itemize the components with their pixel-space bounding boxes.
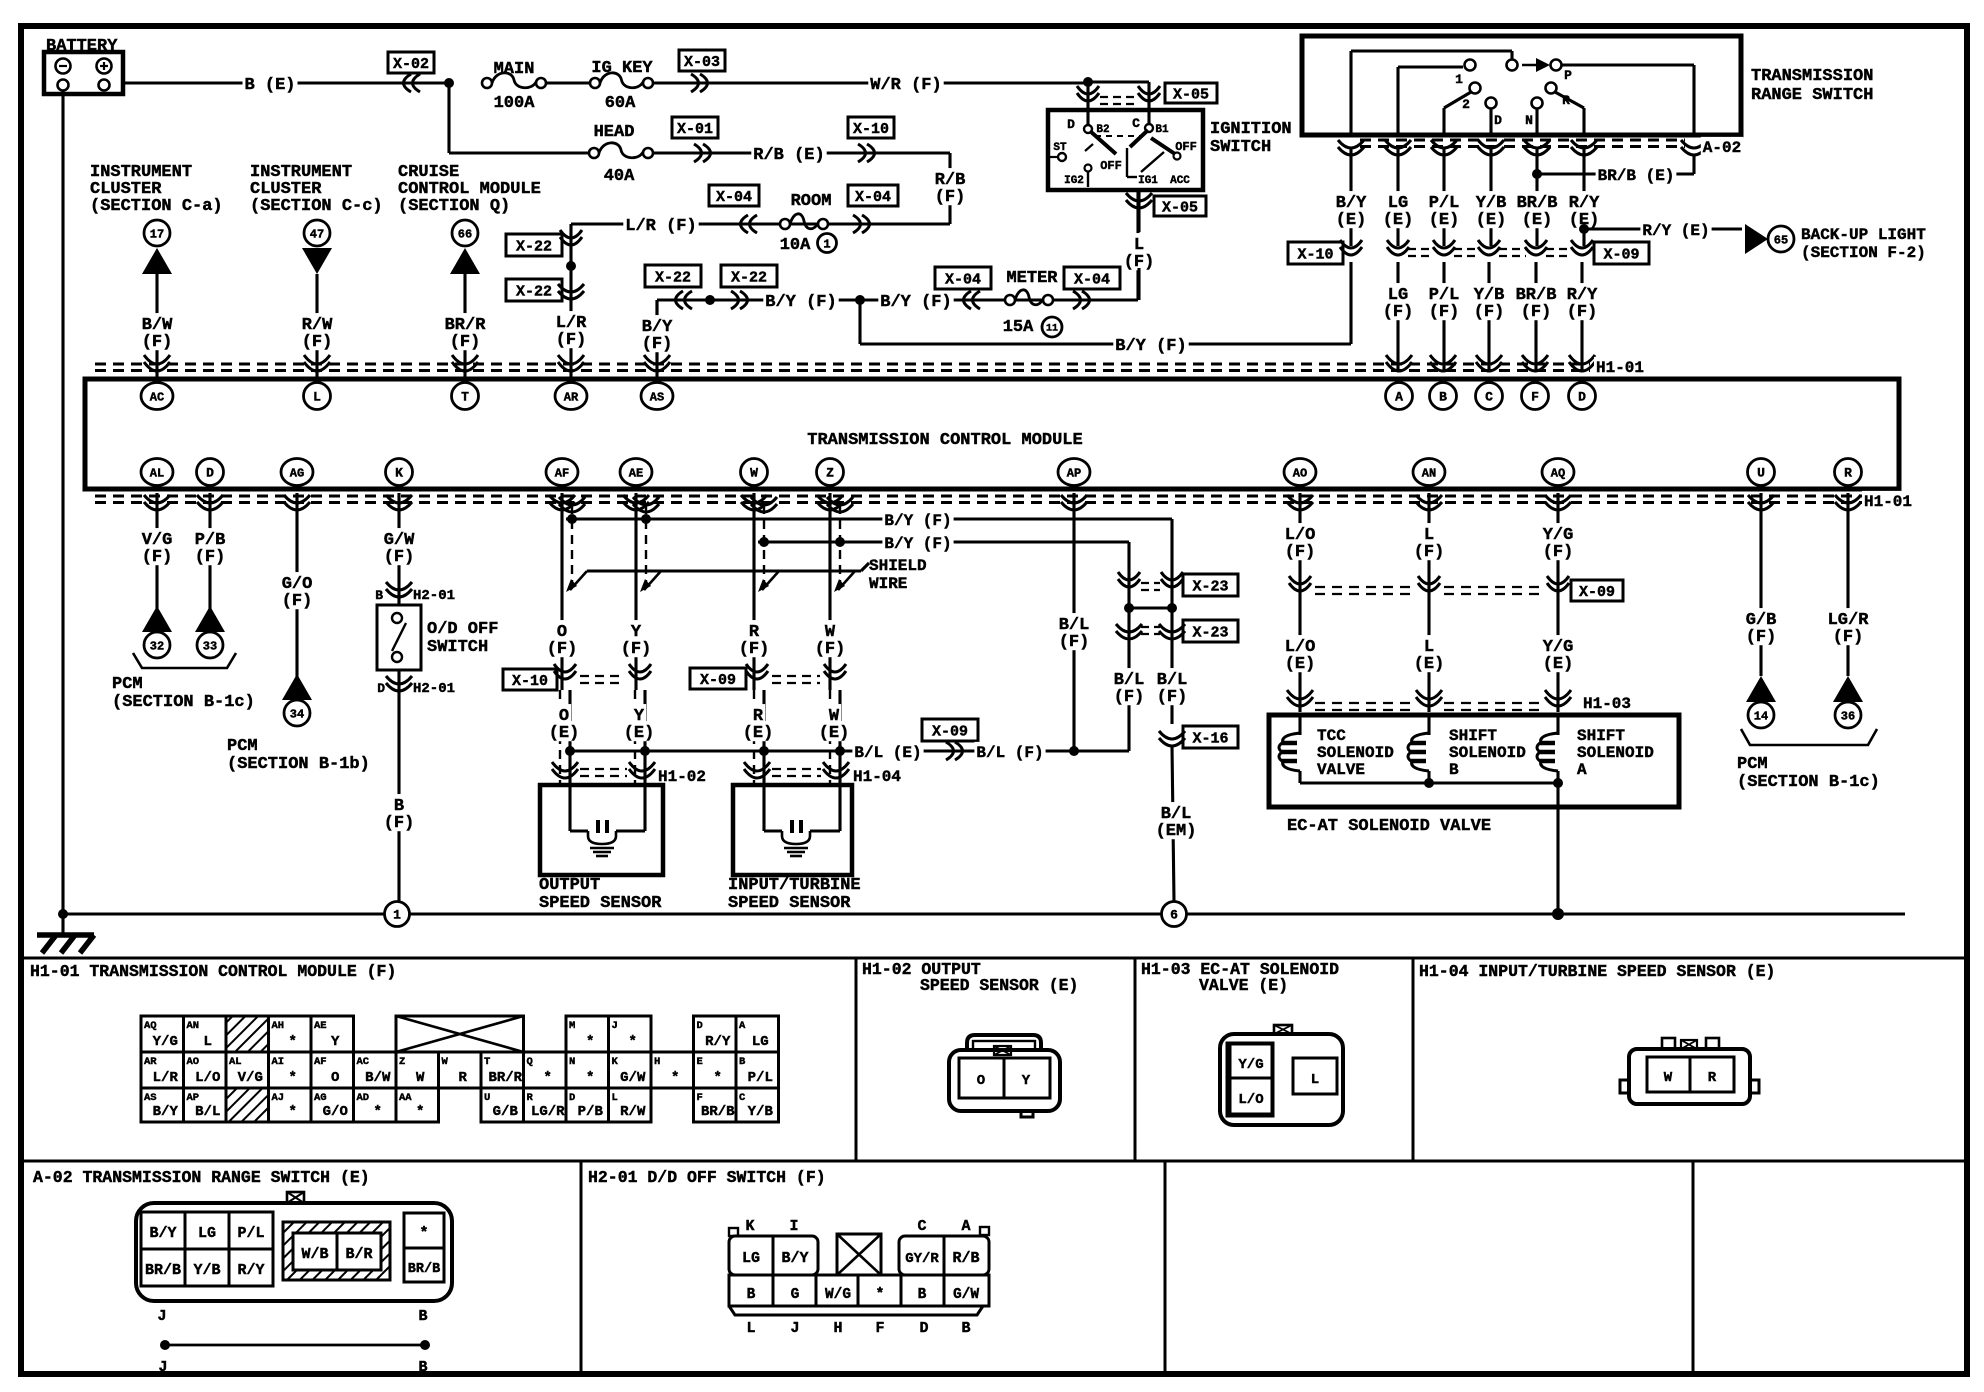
svg-text:(F): (F) <box>1567 303 1598 322</box>
svg-text:(F): (F) <box>1157 688 1188 707</box>
svg-text:BACK-UP LIGHT: BACK-UP LIGHT <box>1801 226 1926 244</box>
connector X-05 box top <box>1165 83 1217 103</box>
shield chevron R <box>751 497 777 512</box>
svg-text:40A: 40A <box>604 167 635 186</box>
svg-text:L: L <box>204 1034 212 1050</box>
svg-text:J: J <box>158 1359 167 1376</box>
label Y(F) <box>629 620 643 640</box>
connector H1-04 chevrons <box>744 762 770 778</box>
svg-text:SWITCH: SWITCH <box>427 638 488 657</box>
svg-text:SPEED SENSOR (E): SPEED SENSOR (E) <box>920 976 1078 995</box>
svg-text:VALVE (E): VALVE (E) <box>1199 976 1288 995</box>
svg-text:A: A <box>961 1218 970 1235</box>
table divider empty cells <box>1692 1161 1695 1374</box>
TCM top bus chevron AC <box>144 355 170 371</box>
wire L solenoid column F <box>1427 493 1430 597</box>
svg-text:(EM): (EM) <box>1156 822 1197 841</box>
wire BR/B(F) column <box>1534 262 1537 372</box>
svg-text:(E): (E) <box>743 724 774 743</box>
label R(F) <box>747 620 761 640</box>
output sensor internals <box>568 785 571 831</box>
svg-text:AA: AA <box>399 1092 412 1104</box>
TCM pin B <box>1430 383 1457 410</box>
svg-text:B/Y (F): B/Y (F) <box>1115 337 1186 356</box>
shield dashed W(F) <box>839 505 841 586</box>
connector X-01 chevron <box>694 144 711 162</box>
junction AP B/L <box>1069 746 1079 756</box>
TCM pin AE <box>620 459 652 486</box>
svg-text:(F): (F) <box>556 331 587 350</box>
junction X-22 <box>566 261 576 271</box>
svg-text:AG: AG <box>290 467 304 481</box>
svg-text:AC: AC <box>150 391 164 405</box>
svg-text:R/W: R/W <box>620 1104 646 1120</box>
wire BR/B(E) link <box>1536 141 1538 174</box>
svg-text:B/Y: B/Y <box>153 1104 179 1120</box>
label B/Y(F) AS column <box>640 315 675 335</box>
node 34 <box>284 700 310 726</box>
svg-text:VALVE: VALVE <box>1317 761 1365 779</box>
O/D switch contacts <box>392 613 402 623</box>
wire Y/G solenoid column F <box>1556 493 1559 597</box>
wire B/Y branch down to AS <box>655 300 658 377</box>
TCM pin AG <box>281 459 313 486</box>
wire R(F) sensor column <box>752 493 755 690</box>
connector X-22 box upper <box>506 234 562 256</box>
node 33 <box>197 632 223 658</box>
svg-text:(F): (F) <box>642 335 673 354</box>
back-up light arrow <box>1745 224 1768 254</box>
svg-text:R: R <box>527 1092 534 1104</box>
TCM top bus chevron L <box>304 355 330 371</box>
label G/W(F) <box>382 528 417 548</box>
svg-text:(E): (E) <box>1429 211 1460 230</box>
TCM top bus chevron B <box>1430 355 1456 371</box>
wire W(E) column <box>838 690 841 785</box>
fuse ROOM 10A <box>780 219 790 229</box>
node 47 <box>304 220 330 246</box>
label B/L(F) col a <box>1112 668 1147 688</box>
svg-text:U: U <box>1757 466 1765 481</box>
svg-text:U: U <box>484 1092 490 1104</box>
input sensor internals <box>762 785 765 831</box>
range switch wire R to R/Y <box>1555 92 1584 108</box>
TCM pin U <box>1748 459 1775 486</box>
range switch contact P <box>1551 60 1562 71</box>
svg-text:L: L <box>746 1320 755 1337</box>
label B/Y(F) meter row a <box>763 290 838 310</box>
svg-text:(E): (E) <box>1336 211 1367 230</box>
shield hook R <box>762 571 779 590</box>
wire L/O solenoid column F <box>1298 493 1301 597</box>
label L(E) <box>1422 635 1436 655</box>
svg-text:AQ: AQ <box>144 1020 157 1032</box>
wire W(F) sensor column <box>828 493 831 690</box>
svg-text:AP: AP <box>1067 467 1081 481</box>
svg-text:BR/B: BR/B <box>408 1262 440 1277</box>
label W/R(F) <box>868 73 943 93</box>
svg-text:Y: Y <box>331 1034 340 1050</box>
svg-text:C: C <box>739 1092 746 1104</box>
svg-text:R: R <box>1708 1070 1717 1086</box>
svg-text:X-09: X-09 <box>1579 584 1615 601</box>
svg-text:B/L: B/L <box>195 1104 220 1120</box>
output speed sensor box <box>540 785 663 875</box>
svg-text:D: D <box>1578 390 1586 405</box>
svg-text:AL: AL <box>150 467 164 481</box>
junction X-23 a <box>1124 603 1134 613</box>
svg-text:33: 33 <box>203 639 217 653</box>
svg-text:SPEED SENSOR: SPEED SENSOR <box>539 894 662 913</box>
wire G/O column <box>295 493 298 700</box>
svg-text:BR/B (E): BR/B (E) <box>1598 167 1675 185</box>
fuse IG KEY 60A <box>590 78 600 88</box>
label B/L(E) <box>852 742 923 761</box>
connector X-22 chevron d <box>731 291 748 309</box>
svg-text:X-01: X-01 <box>677 121 713 138</box>
svg-text:Z: Z <box>399 1056 405 1068</box>
shield hook Y <box>644 571 661 590</box>
svg-text:*: * <box>629 1034 637 1050</box>
O/D switch chevron D <box>386 676 412 691</box>
svg-text:OFF: OFF <box>1100 159 1122 173</box>
svg-text:WIRE: WIRE <box>869 575 907 593</box>
connector X-10 chevron mid <box>1340 240 1362 255</box>
svg-text:X-23: X-23 <box>1192 624 1228 641</box>
svg-text:(F): (F) <box>621 640 652 659</box>
shield chevron W <box>827 497 853 512</box>
connector X-04 box d <box>1064 267 1120 289</box>
range switch contact N <box>1532 98 1543 109</box>
arrow up to 66 <box>450 248 480 274</box>
TCM pin AN <box>1413 459 1445 486</box>
svg-text:W: W <box>750 466 758 481</box>
TCM pin AP <box>1058 459 1090 486</box>
svg-text:TCC: TCC <box>1317 727 1346 745</box>
svg-text:AE: AE <box>629 467 643 481</box>
svg-text:AN: AN <box>1422 467 1436 481</box>
wire Y(E) column <box>643 690 646 785</box>
svg-text:T: T <box>484 1056 490 1068</box>
wire B(F) to ground node <box>397 670 400 901</box>
svg-text:*: * <box>876 1287 885 1303</box>
TCM pin AF <box>546 459 578 486</box>
svg-text:IG2: IG2 <box>1064 175 1084 187</box>
svg-text:Y/G: Y/G <box>153 1034 178 1050</box>
wire B/Y(E) column <box>1349 148 1352 246</box>
svg-text:TRANSMISSION CONTROL MODULE: TRANSMISSION CONTROL MODULE <box>807 431 1082 450</box>
svg-text:O: O <box>331 1070 339 1086</box>
connector X-10 chevron top <box>858 144 875 162</box>
svg-text:J: J <box>612 1020 618 1032</box>
svg-text:(F): (F) <box>282 592 313 611</box>
svg-text:(F): (F) <box>1383 303 1414 322</box>
svg-text:36: 36 <box>1841 709 1855 723</box>
svg-text:11: 11 <box>1046 324 1058 335</box>
label B/Y(F) meter row b <box>878 290 953 310</box>
shield dashed Y(F) <box>645 505 647 586</box>
label R/B(F) <box>933 168 968 188</box>
TCM pin L <box>304 383 331 410</box>
wire Y/G solenoid column E <box>1556 597 1559 712</box>
svg-text:B: B <box>747 1287 756 1303</box>
TCM pin D <box>197 459 224 486</box>
svg-text:H1-01: H1-01 <box>1596 359 1644 377</box>
table border top <box>21 957 1967 960</box>
label BR/R(F) <box>443 313 488 333</box>
svg-text:(E): (E) <box>1522 211 1553 230</box>
label L/R(F) column <box>554 311 589 331</box>
svg-text:B/W: B/W <box>365 1070 391 1086</box>
O/D switch chevron B <box>386 582 412 597</box>
svg-text:AC: AC <box>357 1056 370 1068</box>
svg-text:D: D <box>1067 117 1075 132</box>
svg-text:H1-04: H1-04 <box>853 768 901 786</box>
table divider h2-01/empty <box>1164 1161 1167 1374</box>
shield hook W <box>838 571 855 590</box>
svg-text:D: D <box>569 1092 575 1104</box>
svg-text:SHIFT: SHIFT <box>1577 727 1625 745</box>
svg-text:X-23: X-23 <box>1192 578 1228 595</box>
svg-text:P/L: P/L <box>748 1070 773 1086</box>
svg-text:L/O: L/O <box>1238 1092 1263 1108</box>
connector X-23 box lower <box>1183 620 1238 642</box>
svg-text:AO: AO <box>187 1056 200 1068</box>
arrow up PCM 34 <box>282 674 312 700</box>
svg-text:(F): (F) <box>547 640 578 659</box>
label B/Y(F) drain2 <box>882 533 953 552</box>
wire IG KEY to X-03 <box>653 81 1088 84</box>
TCM pin AS <box>641 383 673 410</box>
svg-text:R/Y: R/Y <box>237 1262 264 1279</box>
TCM top bus chevron AR <box>558 355 584 371</box>
svg-text:L/R (F): L/R (F) <box>625 217 696 236</box>
arrow up PCM 36 <box>1833 676 1863 702</box>
range switch arrow to P <box>1522 64 1545 67</box>
range switch pivot contact <box>1507 60 1518 71</box>
TCM pin Z <box>817 459 844 486</box>
svg-text:AP: AP <box>187 1092 200 1104</box>
svg-text:C: C <box>1132 116 1140 131</box>
connector X-22 box lower <box>506 279 562 301</box>
svg-text:A: A <box>739 1020 746 1032</box>
connector X-09 box mid <box>1594 242 1649 264</box>
svg-text:X-10: X-10 <box>853 121 889 138</box>
svg-text:ROOM: ROOM <box>791 192 832 211</box>
svg-text:X-22: X-22 <box>731 269 767 286</box>
svg-text:SPEED SENSOR: SPEED SENSOR <box>728 894 851 913</box>
TCM bottom bus chevron AE <box>623 495 649 510</box>
svg-text:(F): (F) <box>142 333 173 352</box>
TCM pin AC <box>141 383 173 410</box>
label R/Y(E) <box>1567 191 1602 211</box>
svg-text:H2-01 D/D OFF SWITCH (F): H2-01 D/D OFF SWITCH (F) <box>588 1168 826 1187</box>
label B/W(F) <box>140 313 175 333</box>
svg-text:A-02: A-02 <box>1703 139 1741 157</box>
svg-text:17: 17 <box>150 227 164 241</box>
label B/L(F) col b <box>1155 668 1190 688</box>
svg-text:B1: B1 <box>1155 124 1169 136</box>
label A-02 <box>1701 137 1743 156</box>
battery minus post <box>58 80 69 91</box>
svg-text:W: W <box>416 1070 425 1086</box>
connector H1-03 drawing <box>1220 1034 1343 1125</box>
label B/L(F) row <box>974 742 1045 761</box>
svg-text:1: 1 <box>1455 72 1463 87</box>
svg-text:*: * <box>416 1104 424 1120</box>
svg-text:C: C <box>917 1218 926 1235</box>
svg-text:1: 1 <box>823 237 830 251</box>
svg-text:B: B <box>739 1056 746 1068</box>
connector X-01 box <box>672 117 718 138</box>
svg-text:G/W: G/W <box>953 1287 979 1303</box>
TCC solenoid coil <box>1298 715 1301 735</box>
svg-text:V/G: V/G <box>238 1070 263 1086</box>
TCM bottom bus chevron AP <box>1061 495 1087 510</box>
TCM bottom bus chevron R <box>1835 495 1861 510</box>
TCM pin C <box>1476 383 1503 410</box>
svg-text:2: 2 <box>1462 97 1470 112</box>
arrow up to 17 <box>142 248 172 274</box>
label P/B(F) <box>193 528 228 548</box>
svg-text:TRANSMISSION: TRANSMISSION <box>1751 67 1873 86</box>
connector H2-01 drawing <box>729 1236 818 1275</box>
O/D off switch box <box>377 605 421 670</box>
range switch wire D <box>1489 109 1492 135</box>
svg-text:L/R: L/R <box>153 1070 179 1086</box>
svg-text:R: R <box>459 1070 468 1086</box>
shift solenoid A coil <box>1556 715 1559 735</box>
arrow up PCM 32 <box>142 606 172 632</box>
TCM pin AL <box>141 459 173 486</box>
junction battery rail <box>58 909 68 919</box>
svg-text:G: G <box>791 1287 800 1303</box>
svg-text:W/G: W/G <box>825 1287 851 1303</box>
svg-text:AH: AH <box>272 1020 285 1032</box>
TCM pin A <box>1386 383 1413 410</box>
svg-text:B: B <box>1439 390 1447 405</box>
connector X-16 box <box>1183 726 1238 748</box>
shield dashed R(F) <box>763 505 765 586</box>
arrow down from 47 <box>302 248 332 274</box>
svg-text:D: D <box>377 681 385 696</box>
svg-text:LG: LG <box>198 1225 216 1242</box>
junction drain2 a <box>759 537 769 547</box>
range switch wire B/Y inner <box>1349 51 1352 135</box>
connector X-04 chevron a <box>741 215 758 233</box>
label Y/G(F) <box>1541 523 1576 543</box>
svg-text:GY/R: GY/R <box>905 1251 939 1267</box>
svg-text:P/B: P/B <box>578 1104 604 1120</box>
svg-text:Y/B: Y/B <box>193 1262 220 1279</box>
svg-text:OUTPUT: OUTPUT <box>539 876 600 895</box>
svg-text:B/L (F): B/L (F) <box>976 744 1043 762</box>
svg-text:SOLENOID: SOLENOID <box>1317 744 1394 762</box>
wire R/Y(E) to back-up light <box>1584 227 1742 230</box>
label H1-03 <box>1581 693 1633 712</box>
svg-text:60A: 60A <box>605 94 636 113</box>
svg-text:BR/B: BR/B <box>145 1262 181 1279</box>
svg-text:*: * <box>289 1070 297 1086</box>
svg-text:H1-04 INPUT/TURBINE SPEED SENS: H1-04 INPUT/TURBINE SPEED SENSOR (E) <box>1419 962 1775 981</box>
connector X-22 chevron c <box>676 291 693 309</box>
svg-text:HEAD: HEAD <box>594 123 635 142</box>
svg-text:B (E): B (E) <box>244 76 295 95</box>
svg-text:C: C <box>1485 390 1493 405</box>
label LG(F) <box>1386 283 1410 303</box>
label B/Y(E) <box>1334 191 1369 211</box>
wire P/L(F) column <box>1442 262 1445 372</box>
bottom ground rail wire <box>63 912 1905 915</box>
connector X-23 chevrons upper <box>1118 572 1140 587</box>
junction meter row b <box>855 295 865 305</box>
range switch wire P out <box>1561 63 1694 66</box>
svg-text:B: B <box>1449 761 1459 779</box>
node 36 <box>1835 702 1861 728</box>
shield dashed Y(E) <box>634 690 636 785</box>
svg-text:A: A <box>1577 761 1587 779</box>
range switch contact R <box>1546 83 1557 94</box>
svg-text:(E): (E) <box>624 724 655 743</box>
svg-text:IG KEY: IG KEY <box>591 59 653 78</box>
TCM top bus chevron D <box>1569 355 1595 371</box>
wire V/G column <box>155 493 158 633</box>
connector H1-04 drawing <box>1629 1049 1750 1104</box>
transmission range switch box <box>1302 36 1741 135</box>
svg-text:X-02: X-02 <box>393 56 429 73</box>
PCM bracket right <box>1741 729 1877 745</box>
label G/O(F) <box>280 572 315 592</box>
solenoid common wire <box>1300 781 1558 784</box>
label H1-01 top <box>1594 357 1646 376</box>
connector H1-03 chevrons <box>1287 690 1313 706</box>
svg-text:H: H <box>833 1320 842 1337</box>
label L/O(F) <box>1283 523 1318 543</box>
svg-text:SOLENOID: SOLENOID <box>1449 744 1526 762</box>
svg-text:W/R (F): W/R (F) <box>870 76 941 95</box>
svg-text:BR/B: BR/B <box>701 1104 735 1120</box>
PCM bracket left <box>133 653 236 668</box>
svg-text:(F): (F) <box>384 814 415 833</box>
connector X-09 box solenoid <box>1571 580 1623 601</box>
junction solenoid common <box>1424 778 1434 788</box>
TCM bottom bus chevron AQ <box>1545 495 1571 510</box>
svg-text:(E): (E) <box>1285 655 1316 674</box>
svg-text:L/O: L/O <box>195 1070 220 1086</box>
junction drain2 b <box>835 537 845 547</box>
svg-text:D: D <box>697 1020 703 1032</box>
range switch wire 2 to P/L <box>1444 92 1471 108</box>
connector X-04 box a <box>709 185 759 206</box>
svg-text:X-10: X-10 <box>1297 246 1333 263</box>
svg-text:100A: 100A <box>494 94 536 113</box>
wire B/Y shield drain 1 <box>566 517 1172 520</box>
svg-text:47: 47 <box>310 227 324 241</box>
svg-text:X-04: X-04 <box>716 189 752 206</box>
svg-text:B: B <box>418 1308 427 1325</box>
svg-text:X-04: X-04 <box>1074 271 1110 288</box>
input speed sensor box <box>733 785 852 875</box>
svg-text:(F): (F) <box>1474 303 1505 322</box>
svg-text:I: I <box>789 1218 798 1235</box>
connector X-03 chevron <box>691 74 708 92</box>
label BR/B(E) <box>1596 165 1677 184</box>
fuse METER circuit number 11 <box>1042 317 1062 337</box>
table border middle <box>21 1160 1967 1163</box>
wire L/R vertical to connector X-22 <box>569 224 572 377</box>
connector X-05 chevrons top <box>1077 86 1099 101</box>
TCM pin R <box>1835 459 1862 486</box>
